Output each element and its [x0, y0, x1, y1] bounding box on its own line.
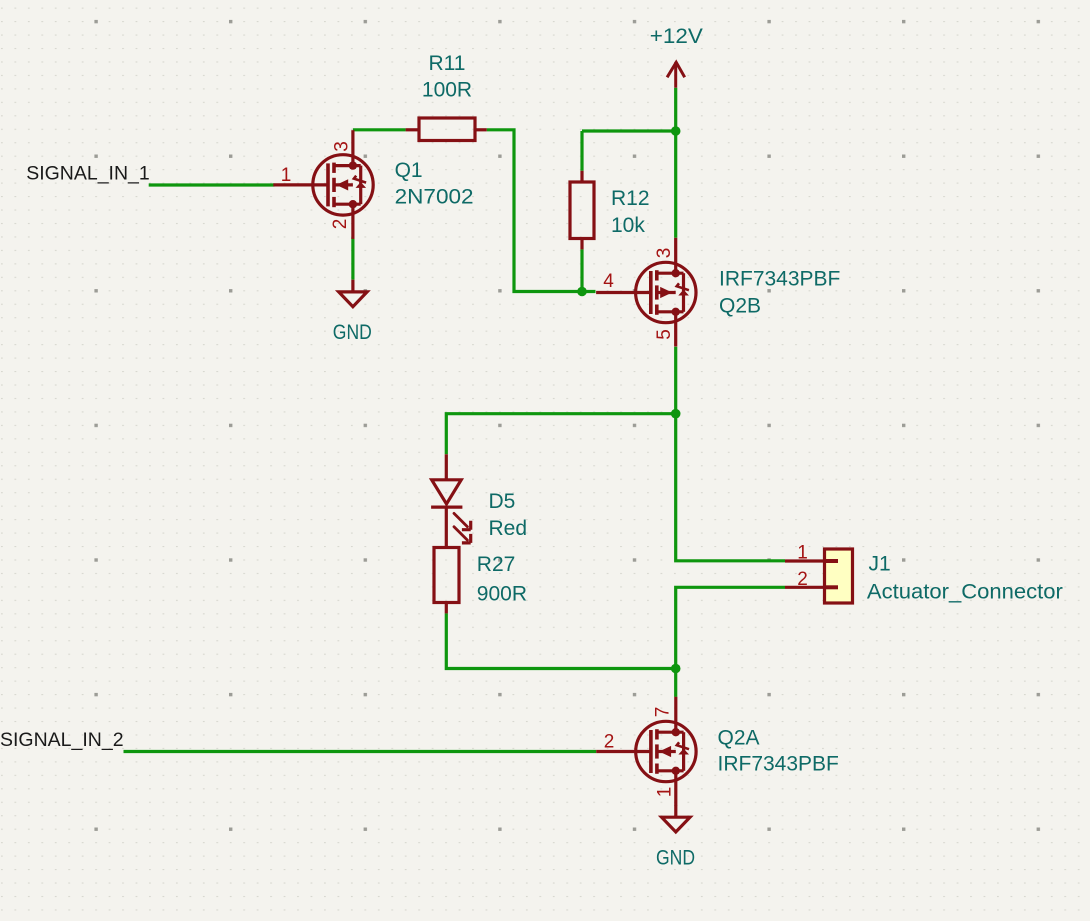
svg-text:4: 4	[603, 271, 614, 292]
svg-text:Red: Red	[489, 517, 528, 540]
svg-text:Q1: Q1	[395, 159, 423, 182]
svg-text:IRF7343PBF: IRF7343PBF	[718, 753, 839, 776]
wire +12V vertical to Q2B drain	[674, 88, 677, 238]
svg-text:Q2B: Q2B	[719, 295, 761, 318]
svg-text:2: 2	[797, 569, 808, 590]
junction node at lower rail	[671, 664, 681, 674]
svg-text:D5: D5	[489, 490, 516, 513]
wire node to D5 anode	[446, 414, 675, 455]
svg-text:1: 1	[655, 787, 676, 798]
transistor Q1	[273, 130, 373, 239]
svg-text:100R: 100R	[422, 79, 472, 102]
svg-text:3: 3	[331, 141, 352, 152]
resistor R12	[570, 171, 594, 250]
svg-text:GND: GND	[333, 321, 372, 344]
svg-text:7: 7	[653, 707, 674, 718]
wire node down to J1 pin1	[676, 414, 785, 561]
svg-text:10k: 10k	[611, 214, 645, 237]
wire R12 top vertical	[580, 131, 583, 171]
svg-text:3: 3	[654, 248, 675, 259]
svg-text:5: 5	[654, 329, 675, 340]
wire SIGNAL_IN_2 to Q2A gate	[124, 750, 597, 753]
wire Q1 drain to R11 left	[353, 128, 406, 131]
wire Q1 source to GND	[351, 238, 354, 280]
svg-text:2: 2	[604, 732, 615, 753]
wire R11 right to gate node of Q2B	[487, 130, 596, 292]
svg-text:GND: GND	[656, 847, 695, 870]
wire SIGNAL_IN_1 to Q1 gate	[149, 183, 275, 186]
wire J1 pin2 to lower node	[676, 587, 785, 668]
svg-text:2N7002: 2N7002	[395, 186, 474, 209]
svg-text:R27: R27	[477, 553, 516, 576]
junction node at Q2B source / D5 branch	[671, 409, 681, 419]
LED emission arrows	[454, 513, 471, 543]
svg-text:R11: R11	[429, 52, 466, 75]
svg-text:+12V: +12V	[650, 25, 703, 48]
svg-text:SIGNAL_IN_2: SIGNAL_IN_2	[0, 729, 124, 751]
svg-text:J1: J1	[869, 553, 891, 576]
wire R27 bottom to lower node	[446, 613, 675, 668]
svg-text:900R: 900R	[477, 583, 527, 606]
junction node at +12V rail	[671, 126, 681, 136]
transistor Q2A	[596, 697, 696, 806]
junction node at Q2B gate	[577, 287, 587, 297]
ground symbol GND (under Q2A)	[662, 805, 690, 832]
wire +12V rail horizontal to R12 top	[582, 129, 676, 132]
svg-text:IRF7343PBF: IRF7343PBF	[719, 268, 840, 291]
wire R12 bottom to gate node	[580, 249, 583, 291]
resistor R27	[434, 548, 459, 614]
power symbol +12V	[667, 62, 685, 87]
wire lower node to Q2A drain	[674, 669, 677, 697]
svg-text:SIGNAL_IN_1: SIGNAL_IN_1	[26, 163, 150, 185]
svg-text:R12: R12	[611, 187, 650, 210]
LED D5	[431, 454, 462, 547]
svg-text:Q2A: Q2A	[718, 727, 760, 750]
ground symbol GND (under Q1)	[339, 280, 367, 307]
transistor Q2B	[596, 238, 696, 347]
svg-text:2: 2	[330, 219, 351, 230]
resistor R11	[406, 118, 487, 141]
svg-text:Actuator_Connector: Actuator_Connector	[867, 581, 1063, 604]
svg-text:1: 1	[281, 165, 292, 186]
wire Q2B source down to node	[674, 347, 677, 414]
connector J1	[785, 549, 853, 603]
svg-text:1: 1	[797, 543, 808, 564]
